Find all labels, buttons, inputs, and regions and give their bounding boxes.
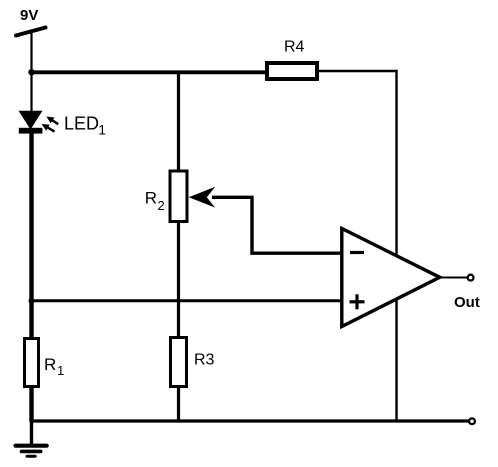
potentiometer wiper arrow	[189, 187, 216, 208]
ground stem	[30, 421, 33, 444]
op-amp inverting input symbol	[350, 251, 364, 254]
svg-text:2: 2	[158, 198, 165, 213]
svg-text:R3: R3	[194, 351, 215, 368]
svg-text:R: R	[145, 189, 157, 208]
bottom rail wire	[32, 419, 469, 422]
svg-text:LED: LED	[64, 113, 99, 133]
svg-text:1: 1	[98, 122, 106, 138]
svg-text:R: R	[44, 355, 56, 374]
wire middle branch between R2 and R3	[177, 220, 180, 338]
LED arrow 2	[40, 121, 56, 135]
wire R1 to bottom rail	[29, 386, 33, 422]
wire R4 right to corner	[317, 70, 398, 72]
op-amp non-inverting input symbol	[350, 294, 365, 309]
resistor R4	[267, 63, 317, 79]
LED D1 triangle	[19, 111, 43, 130]
ground bar 1	[16, 444, 47, 448]
node junction dot top-left	[28, 69, 34, 75]
wire middle branch bottom	[177, 386, 180, 421]
wire middle branch top	[177, 71, 180, 172]
wire node to R1	[29, 300, 33, 339]
svg-text:R4: R4	[284, 39, 305, 56]
resistor R1 body	[25, 339, 39, 387]
resistor R3 body	[171, 338, 187, 387]
node junction dot left rail	[29, 298, 35, 304]
ground bar 3	[27, 455, 35, 458]
output terminal circle	[468, 275, 474, 281]
op-amp U1 triangle	[342, 229, 440, 327]
battery / supply stroke	[16, 28, 46, 36]
wire non-inverting rail	[32, 299, 343, 302]
wire wiper to op-amp inverting input	[212, 197, 342, 253]
svg-text:9V: 9V	[20, 7, 38, 24]
svg-text:1: 1	[57, 363, 64, 378]
resistor R2 body	[170, 171, 187, 222]
LED arrow 1	[44, 114, 60, 128]
ground bar 2	[22, 450, 41, 454]
top rail wire	[30, 70, 267, 74]
wire feedback vertical (passes behind op-amp)	[395, 70, 397, 421]
wire top-left rail to LED	[30, 71, 32, 112]
LED D1 cathode bar	[19, 128, 43, 134]
wire from supply down to top rail	[30, 31, 32, 72]
svg-text:Out: Out	[454, 294, 480, 311]
bottom-right terminal circle	[469, 418, 475, 424]
wire LED cathode down to node	[29, 132, 33, 302]
wire op-amp output	[439, 277, 467, 279]
